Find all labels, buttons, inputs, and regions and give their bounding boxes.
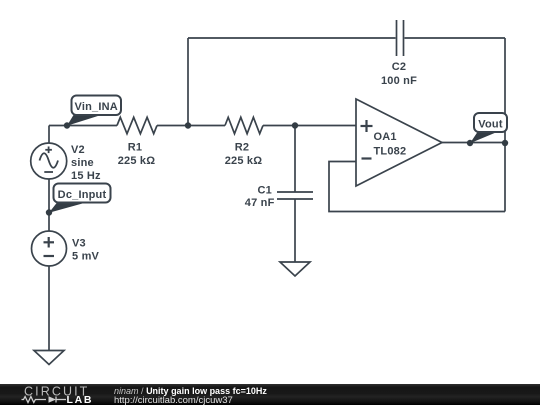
svg-text:V2: V2 (71, 144, 85, 156)
svg-text:R2: R2 (235, 142, 249, 154)
svg-text:225 kΩ: 225 kΩ (118, 155, 156, 167)
svg-text:TL082: TL082 (374, 146, 407, 158)
svg-text:100 nF: 100 nF (381, 75, 417, 87)
svg-text:OA1: OA1 (374, 131, 397, 143)
svg-text:Vout: Vout (478, 118, 503, 130)
svg-text:225 kΩ: 225 kΩ (225, 155, 263, 167)
svg-text:47 nF: 47 nF (245, 197, 275, 209)
svg-text:5 mV: 5 mV (72, 251, 100, 263)
svg-text:C2: C2 (392, 61, 406, 73)
svg-text:R1: R1 (128, 142, 142, 154)
svg-text:Dc_Input: Dc_Input (58, 189, 107, 201)
svg-text:sine: sine (71, 157, 94, 169)
svg-text:V3: V3 (72, 238, 86, 250)
svg-text:15 Hz: 15 Hz (71, 170, 101, 182)
svg-text:LAB: LAB (67, 394, 94, 405)
svg-text:Vin_INA: Vin_INA (75, 101, 118, 113)
svg-text:C1: C1 (258, 185, 272, 197)
